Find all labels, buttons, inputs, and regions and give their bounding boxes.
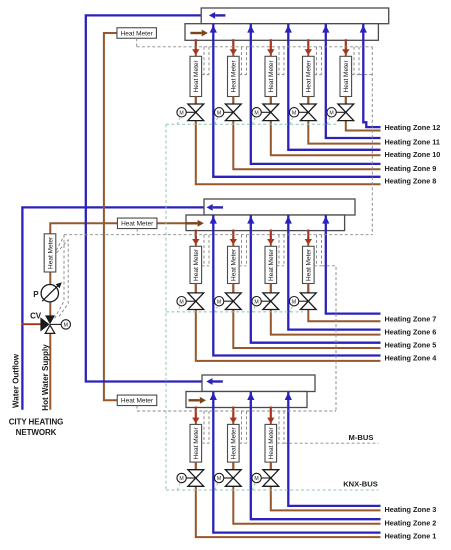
heat meter HM1 [190,424,202,462]
wire valve V2 actuator link [224,477,234,479]
valve V7 (2-way motorised) [300,293,316,310]
svg-text:M: M [179,476,183,482]
wire zone 4 supply pipe [196,230,381,361]
wire zone 8 meter-to-valve [195,97,197,105]
wire main supply riser (brown, feeds top and bottom groups) [104,33,118,400]
valve V3 (2-way motorised) [263,470,279,487]
valve V12 (2-way motorised) [338,104,354,121]
wire KNX drop M3 [252,483,255,490]
motor actuator M5 [214,297,223,306]
svg-text:Heating Zone 1: Heating Zone 1 [385,532,437,541]
wire KNX drop M8 [177,117,180,124]
wire KNX drop M7 [290,306,293,312]
motor actuator M-CV [61,320,70,329]
supply manifold middle group [186,215,345,231]
wire zone 10 supply drop arrow [270,39,272,50]
motor actuator M4 [177,297,186,306]
supply flow arrow bottom [189,399,200,401]
wire zone 9 return arrow [247,25,254,33]
wire zone 1 supply pipe [196,407,381,538]
svg-text:Heat Meter: Heat Meter [268,248,275,281]
valve V6 (2-way motorised) [263,293,279,310]
svg-text:NETWORK: NETWORK [16,428,57,437]
motor actuator M1 [177,473,186,482]
return manifold top group [201,8,389,24]
wire KNX drop M6 [252,306,255,312]
wire zone 6 return pipe [288,215,380,330]
wire zone 10 meter-to-valve [270,97,272,105]
wire zone 6 supply drop arrow [270,230,272,240]
svg-text:Heat Meter: Heat Meter [306,59,313,92]
svg-text:Heating Zone 12: Heating Zone 12 [385,123,441,132]
wire M-BUS loop HM4 [203,235,205,266]
wire valve V1 actuator link [186,477,196,479]
svg-text:Heat Meter: Heat Meter [193,248,200,281]
svg-text:M: M [329,110,333,116]
svg-text:Heat Meter: Heat Meter [193,59,200,92]
wire KNX drop M11 [290,117,293,124]
svg-text:Heat Meter: Heat Meter [306,248,313,281]
supply manifold top group [185,24,378,41]
heat meter HM-G1 (top group) [117,28,157,39]
svg-text:KNX-BUS: KNX-BUS [343,480,378,489]
svg-text:M: M [217,299,221,305]
wire zone 11 supply drop arrow [307,39,309,50]
wire M-BUS loop HM5 [241,235,243,266]
svg-text:M: M [292,299,296,305]
wire zone 10 return arrow [285,25,292,33]
valve V9 (2-way motorised) [225,104,241,121]
valve V1 (2-way motorised) [188,470,204,487]
svg-text:M: M [254,110,258,116]
wire zone 11 return arrow [322,25,329,33]
wire valve V4 actuator link [186,300,196,302]
heat meter HM-G2 (middle group) [117,218,157,229]
wire zone 3 meter-to-valve [270,462,272,470]
motor actuator M9 [214,108,223,117]
motor actuator M11 [289,108,298,117]
svg-text:M: M [254,476,258,482]
wire zone 2 return arrow [247,392,254,400]
wire zone 5 return arrow [247,216,254,224]
wire zone 7 supply pipe [308,230,380,322]
wire KNX-BUS riser [165,124,167,490]
valve V4 (2-way motorised) [188,293,204,310]
control valve CV (3-way, motorised) [45,315,55,324]
wire valve V5 actuator link [224,300,234,302]
wire KNX-BUS trunk top group [166,123,337,125]
wire zone 11 supply pipe [308,39,380,143]
wire zone 4 return pipe [213,215,380,356]
valve V5 (2-way motorised) [225,293,241,310]
svg-text:Heating Zone 9: Heating Zone 9 [385,164,437,173]
wire zone 1 meter-to-valve [195,462,197,470]
svg-text:Water Outflow: Water Outflow [12,353,21,408]
wire M-BUS riser top-to-middle [371,47,373,235]
wire M-BUS loop HM7 [316,235,318,266]
wire M-BUS drop HM-G3 [136,406,138,411]
heat meter HM3 [265,424,277,462]
wire zone 6 return arrow [285,216,292,224]
wire zone 8 return pipe [213,24,380,177]
heat meter HM12 [340,56,352,96]
wire supply pipe heat meter HM0 up to header junction [50,223,186,234]
wire zone 11 return pipe [326,24,381,138]
valve V10 (2-way motorised) [263,104,279,121]
return flow arrow top [215,14,225,16]
wire KNX drop M5 [215,306,218,312]
return manifold middle group [204,199,355,215]
heat meter HM0 (city heat meter) [44,234,56,272]
wire M-BUS trunk middle group [64,234,372,236]
wire M-BUS link HM12 to riser [359,74,372,76]
motor actuator M8 [177,108,186,117]
wire M-BUS stub to label [284,442,379,444]
wire zone 1 return pipe [213,392,380,533]
return flow arrow middle [213,206,223,208]
motor actuator M2 [214,473,223,482]
wire M-BUS riser to CV actuator [55,235,64,319]
wire KNX drop M2 [215,483,218,490]
wire main return riser (blue, top and bottom groups) [86,15,203,381]
svg-text:Heat Meter: Heat Meter [121,30,154,37]
svg-text:Heating Zone 6: Heating Zone 6 [385,328,437,337]
svg-text:Heat Meter: Heat Meter [268,426,275,459]
svg-text:CITY HEATING: CITY HEATING [9,418,64,427]
wire zone 5 supply pipe [233,230,380,348]
svg-text:Heating Zone 8: Heating Zone 8 [385,177,437,186]
wire M-BUS loop HM1 [203,411,205,443]
wire zone 12 meter-to-valve [345,97,347,105]
supply flow arrow top [190,32,201,34]
valve V2 (2-way motorised) [225,470,241,487]
svg-text:M: M [217,476,221,482]
wire zone 9 meter-to-valve [232,97,234,105]
heat meter HM7 [303,246,315,283]
wire zone 8 supply drop arrow [195,39,197,50]
wire zone 5 supply drop arrow [232,230,234,240]
wire valve V11 actuator link [299,111,309,113]
wire zone 2 meter-to-valve [232,462,234,470]
heat meter HM5 [228,246,240,283]
svg-text:Heating Zone 5: Heating Zone 5 [385,341,437,350]
wire zone 9 supply pipe [233,39,380,169]
wire KNX drop M4 [177,306,180,312]
heat meter HM10 [265,56,277,96]
wire zone 7 return pipe [326,215,381,314]
svg-text:Heat Meter: Heat Meter [193,426,200,459]
heat meter HM9 [228,56,240,96]
wire valve V10 actuator link [261,111,271,113]
wire zone 2 return pipe [251,392,381,520]
wire zone 8 supply pipe [196,39,381,184]
supply manifold bottom group [186,392,307,408]
wire M-BUS riser to pump/CV [57,240,69,318]
motor actuator M6 [252,297,261,306]
wire zone 8 return arrow [210,25,217,33]
wire zone 6 meter-to-valve [270,284,272,293]
motor actuator M10 [252,108,261,117]
return manifold bottom group [202,375,315,392]
wire zone 1 supply drop arrow [195,407,197,419]
wire KNX drop M1 [177,483,180,490]
wire zone 4 return arrow [210,216,217,224]
svg-text:CV: CV [30,312,42,321]
wire valve V6 actuator link [261,300,271,302]
pump P [41,285,58,302]
wire valve V3 actuator link [261,477,271,479]
svg-text:M: M [64,323,68,329]
wire zone 12 supply drop arrow [345,39,347,50]
svg-text:Heat Meter: Heat Meter [121,221,154,228]
wire zone 9 supply drop arrow [232,39,234,50]
wire zone 12 supply pipe [346,39,381,130]
wire zone 4 meter-to-valve [195,284,197,293]
wire zone 12 return pipe [363,24,380,127]
wire M-BUS drop HM-G1 [136,38,138,47]
wire KNX-BUS trunk bottom group [166,489,379,491]
wire M-BUS loop HM12 [353,47,355,75]
svg-text:Heating Zone 7: Heating Zone 7 [385,315,437,324]
wire KNX drop M9 [215,117,218,124]
wire zone 2 supply drop arrow [232,407,234,419]
heat meter HM2 [228,424,240,462]
heat meter HM4 [190,246,202,283]
wire supply pipe pump to heat meter HM0 [49,272,51,284]
svg-text:Heat Meter: Heat Meter [231,248,238,281]
valve V11 (2-way motorised) [300,104,316,121]
wire M-BUS loop HM3 [278,411,280,443]
wire zone 1 return arrow [210,392,217,400]
wire zone 3 supply drop arrow [270,407,272,419]
wire zone 7 meter-to-valve [307,284,309,293]
heat meter HM-G3 (bottom group) [117,395,157,406]
wire zone 5 return pipe [251,215,381,343]
wire M-BUS trunk bottom group [137,410,336,412]
heat meter HM6 [265,246,277,283]
wire M-BUS loop HM11 [316,47,318,75]
svg-text:Heat Meter: Heat Meter [268,59,275,92]
svg-text:M: M [179,110,183,116]
wire zone 3 return pipe [288,392,380,506]
svg-text:Heat Meter: Heat Meter [47,236,54,269]
svg-text:Heat Meter: Heat Meter [121,398,154,405]
heat meter HM11 [303,56,315,96]
wire M-BUS trunk top group [137,46,373,48]
svg-text:Hot Water Supply: Hot Water Supply [41,344,50,411]
wire M-BUS loop HM2 [241,411,243,443]
supply flow arrow middle [186,222,197,224]
svg-text:M: M [292,110,296,116]
motor actuator M7 [289,297,298,306]
wire zone 5 meter-to-valve [232,284,234,293]
wire zone 10 supply pipe [271,39,381,155]
svg-text:M-BUS: M-BUS [349,433,374,442]
wire KNX-BUS trunk middle group [166,311,303,313]
wire valve V12 actuator link [336,111,346,113]
wire recirculation shunt (red) [21,323,41,325]
wire zone 7 return arrow [322,216,329,224]
svg-text:Heating Zone 11: Heating Zone 11 [385,137,440,146]
wire M-BUS loop HM6 [278,235,280,266]
svg-text:M: M [254,299,258,305]
wire zone 3 supply pipe [271,407,381,511]
wire zone 4 supply drop arrow [195,230,197,240]
valve V8 (2-way motorised) [188,104,204,121]
wire KNX drop M10 [252,117,255,124]
svg-text:P: P [33,290,39,299]
wire M-BUS loop HM8 [203,47,205,75]
wire zone 2 supply pipe [233,407,380,524]
wire zone 9 return pipe [251,24,381,164]
wire CV actuator link [50,323,61,325]
wire zone 7 supply drop arrow [307,230,309,240]
wire city water outflow pipe (blue) [22,207,203,409]
wire zone 11 meter-to-valve [307,97,309,105]
wire supply pipe CV to pump [49,301,51,316]
wire zone 10 return pipe [288,24,380,150]
wire hot water supply pipe bottom (brown) [49,333,51,410]
wire M-BUS loop HM9 [241,47,243,75]
wire M-BUS drop to heat meter HM0 [56,236,64,251]
wire valve V7 actuator link [299,300,309,302]
wire KNX drop M12 [327,117,330,124]
return flow arrow bottom [213,380,223,382]
svg-text:Heat Meter: Heat Meter [231,426,238,459]
wire valve V8 actuator link [186,111,196,113]
svg-text:Heat Meter: Heat Meter [343,59,350,92]
heat meter HM8 [190,56,202,96]
svg-text:Heating Zone 2: Heating Zone 2 [385,518,437,527]
wire zone 12 return arrow [360,25,367,33]
wire M-BUS loop HM10 [278,47,280,75]
svg-text:Heating Zone 4: Heating Zone 4 [385,354,438,363]
wire M-BUS drop HM-G2 [136,229,138,235]
svg-text:M: M [179,299,183,305]
wire valve V9 actuator link [224,111,234,113]
svg-text:M: M [217,110,221,116]
svg-text:Heating Zone 10: Heating Zone 10 [385,150,441,159]
wire M-BUS riser middle-to-bottom [322,266,337,411]
svg-text:Heat Meter: Heat Meter [231,59,238,92]
wire zone 6 supply pipe [271,230,381,335]
motor actuator M3 [252,473,261,482]
wire zone 3 return arrow [285,392,292,400]
motor actuator M12 [327,108,336,117]
svg-text:Heating Zone 3: Heating Zone 3 [385,505,437,514]
